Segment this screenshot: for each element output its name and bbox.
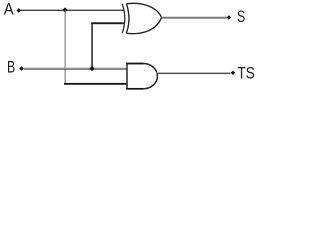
XOR gate U1 input arc: [122, 4, 125, 33]
node S terminal marker: [227, 15, 231, 19]
AND gate U2 body: [127, 64, 157, 89]
svg-text:A: A: [4, 1, 14, 19]
wire AND output to TS: [157, 72, 231, 74]
wire B horizontal to AND top input: [24, 68, 127, 70]
wire black riser from B junction up: [91, 23, 93, 70]
node B terminal marker: [19, 66, 24, 71]
XOR gate U1 body: [126, 3, 161, 33]
node TS terminal marker: [231, 71, 235, 75]
wire black stub to AND bottom input: [64, 83, 128, 85]
wire vertical from A junction down: [65, 10, 66, 85]
wire XOR output to S: [162, 17, 228, 19]
junction on wire B: [89, 66, 94, 71]
wire A horizontal to XOR input: [21, 9, 124, 11]
node A terminal marker: [16, 8, 21, 13]
svg-text:B: B: [7, 58, 15, 76]
junction on wire A: [62, 7, 67, 12]
wire black stub to XOR bottom input: [91, 22, 124, 24]
svg-text:S: S: [237, 8, 246, 26]
svg-text:TS: TS: [237, 65, 255, 83]
